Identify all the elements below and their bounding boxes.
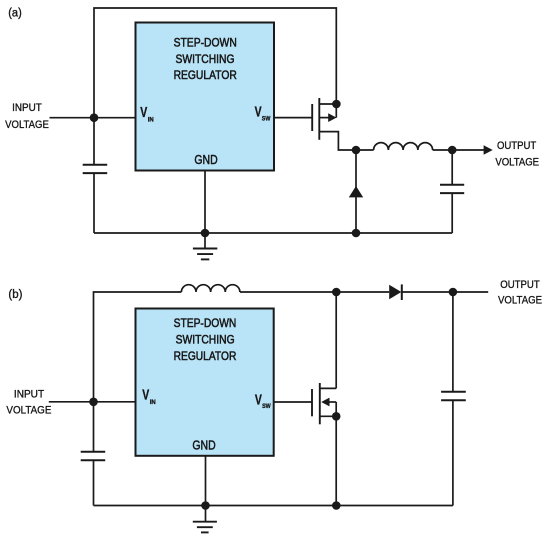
capacitor C3 input (b) — [81, 402, 106, 506]
node ground junction (b) — [201, 501, 210, 510]
wire GND pin to bottom rail (b) — [205, 456, 207, 506]
svg-text:OUTPUT: OUTPUT — [497, 140, 537, 152]
svg-text:VOLTAGE: VOLTAGE — [498, 294, 542, 306]
svg-text:SWITCHING: SWITCHING — [176, 332, 235, 346]
node input (b) — [89, 398, 98, 407]
node Q2 source junction (b) — [332, 412, 341, 421]
wire gate VSW to Q1 (a) — [274, 117, 312, 119]
wire bottom rail (a) — [94, 232, 452, 234]
svg-text:VOLTAGE: VOLTAGE — [495, 156, 539, 168]
inductor L2 (b) — [181, 285, 336, 292]
input voltage label (b) — [6, 388, 51, 416]
svg-text:VOLTAGE: VOLTAGE — [5, 119, 49, 131]
svg-text:SW: SW — [262, 115, 271, 122]
svg-text:GND: GND — [192, 438, 215, 453]
svg-text:REGULATOR: REGULATOR — [174, 349, 237, 363]
svg-text:SW: SW — [262, 403, 271, 410]
capacitor C1 input (a) — [83, 118, 108, 233]
svg-text:VOLTAGE: VOLTAGE — [6, 404, 51, 416]
node Q2 drain junction (b) — [332, 288, 341, 297]
wire input to VIN (b) — [49, 401, 136, 403]
svg-text:STEP-DOWN: STEP-DOWN — [174, 316, 237, 330]
wire riser input to top rail (b) — [94, 292, 182, 402]
regulator U2 (b) — [136, 309, 274, 456]
svg-text:SWITCHING: SWITCHING — [176, 52, 235, 66]
node Q1 source junction (a) — [332, 100, 341, 109]
ground symbol (b) — [193, 506, 217, 533]
output voltage label (b) — [498, 279, 542, 306]
wire gate VSW to Q2 (b) — [274, 401, 312, 403]
capacitor C4 output (b) — [441, 292, 466, 506]
pin label VSW of U1 (a) — [255, 105, 271, 123]
wire riser input to top rail (a) — [94, 8, 336, 118]
svg-text:INPUT: INPUT — [14, 388, 45, 400]
svg-text:IN: IN — [150, 399, 156, 406]
svg-text:OUTPUT: OUTPUT — [500, 279, 540, 291]
node output (a) — [448, 146, 457, 155]
node Q2 source on bottom rail (b) — [332, 501, 341, 510]
svg-text:GND: GND — [194, 152, 217, 167]
diode D2 boost rectifier (b) — [389, 284, 453, 300]
wire output stub (b) — [453, 291, 488, 293]
svg-text:V: V — [140, 105, 147, 121]
pin label VSW of U2 (b) — [255, 393, 271, 411]
node Q1 drain / diode cathode (a) — [352, 146, 361, 155]
svg-text:V: V — [142, 388, 149, 404]
node input (a) — [90, 113, 99, 122]
diode D1 catch freewheel (a) — [349, 150, 363, 233]
pin label VIN of U1 (a) — [140, 105, 154, 123]
node diode anode on bottom rail (a) — [352, 229, 361, 238]
regulator U1 (a) — [136, 23, 275, 171]
wire Q2 source to bottom rail (b) — [335, 416, 337, 505]
wire top rail to diode (b) — [336, 291, 389, 293]
svg-text:(b): (b) — [8, 289, 22, 301]
wire output with arrow (a) — [452, 145, 493, 155]
output voltage label (a) — [495, 140, 539, 168]
svg-text:IN: IN — [148, 116, 154, 123]
transistor Q1 PMOS (a) — [312, 98, 356, 150]
svg-text:INPUT: INPUT — [12, 102, 42, 114]
capacitor C2 output (a) — [440, 150, 464, 233]
ground symbol (a) — [193, 233, 217, 259]
svg-text:REGULATOR: REGULATOR — [174, 68, 237, 82]
transistor Q2 NMOS (b) — [312, 292, 336, 424]
wire bottom rail (b) — [94, 505, 453, 507]
svg-text:STEP-DOWN: STEP-DOWN — [174, 35, 237, 49]
inductor L1 (a) — [356, 143, 452, 150]
svg-text:(a): (a) — [8, 8, 22, 20]
pin label VIN of U2 (b) — [142, 388, 156, 406]
node output (b) — [449, 288, 458, 297]
wire GND pin to bottom rail (a) — [204, 171, 206, 234]
input voltage label (a) — [5, 102, 49, 131]
node ground junction (a) — [201, 229, 210, 238]
wire input to VIN (a) — [50, 117, 136, 119]
